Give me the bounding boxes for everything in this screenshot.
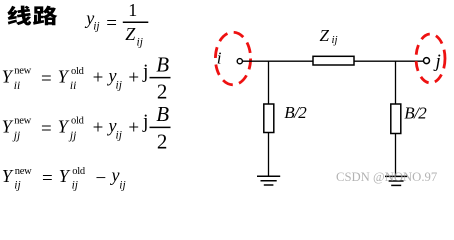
shunt capacitor box B/2 left xyxy=(264,104,274,133)
wire Zij box to j xyxy=(354,60,424,62)
svg-text:+: + xyxy=(93,68,104,89)
svg-text:+: + xyxy=(128,68,139,89)
svg-text:B: B xyxy=(156,102,169,126)
svg-text:new: new xyxy=(15,166,32,177)
svg-text:jj: jj xyxy=(68,130,76,142)
svg-text:old: old xyxy=(72,166,86,177)
svg-text:=: = xyxy=(42,168,53,189)
node terminal j xyxy=(424,58,430,64)
svg-text:ij: ij xyxy=(14,180,20,192)
svg-text:=: = xyxy=(41,69,52,90)
svg-text:+: + xyxy=(93,117,104,138)
svg-text:Z: Z xyxy=(125,24,136,44)
node ellipse j (red dashed) xyxy=(416,34,445,83)
svg-text:y: y xyxy=(110,165,120,185)
svg-text:ij: ij xyxy=(93,20,99,32)
node terminal i xyxy=(237,59,242,64)
title 线 (xian) xyxy=(7,6,31,26)
equation Yjj_new = Yjj_old + y_ij + jB/2 xyxy=(2,102,171,153)
svg-text:jj: jj xyxy=(12,130,20,142)
svg-text:1: 1 xyxy=(128,0,137,20)
svg-text:B/2: B/2 xyxy=(404,103,427,122)
svg-text:ij: ij xyxy=(116,129,122,141)
svg-text:2: 2 xyxy=(157,80,168,104)
node ellipse i (red dashed) xyxy=(215,32,250,85)
svg-text:ii: ii xyxy=(14,80,20,92)
svg-text:Z: Z xyxy=(320,26,330,45)
svg-text:ii: ii xyxy=(70,80,76,92)
equation Yii_new = Yii_old + y_ij + jB/2 xyxy=(2,52,171,103)
svg-text:new: new xyxy=(14,66,31,77)
wire right shunt branch bottom xyxy=(395,134,397,177)
svg-text:ij: ij xyxy=(116,80,122,92)
svg-text:B: B xyxy=(156,52,169,76)
svg-text:CSDN @NONO.97: CSDN @NONO.97 xyxy=(336,170,437,184)
svg-text:i: i xyxy=(217,48,222,67)
wire right shunt branch top xyxy=(395,61,397,105)
svg-text:old: old xyxy=(71,66,85,77)
svg-text:=: = xyxy=(106,13,117,34)
svg-text:ij: ij xyxy=(137,36,143,48)
svg-text:new: new xyxy=(14,115,31,126)
svg-text:j: j xyxy=(142,62,148,83)
wire left shunt branch bottom xyxy=(268,133,270,177)
svg-text:old: old xyxy=(71,116,85,127)
svg-text:j: j xyxy=(142,111,148,132)
svg-text:+: + xyxy=(128,117,139,138)
svg-text:−: − xyxy=(96,168,107,189)
wire i to Zij box xyxy=(243,60,314,62)
ground right xyxy=(385,176,407,185)
svg-text:ij: ij xyxy=(72,180,78,192)
svg-text:2: 2 xyxy=(157,129,168,153)
ground left xyxy=(257,176,280,185)
equation Yij_new = Yij_old - y_ij xyxy=(2,165,126,192)
svg-text:=: = xyxy=(41,118,52,139)
title 路 (lu) xyxy=(33,6,57,26)
svg-text:B/2: B/2 xyxy=(284,103,307,122)
shunt capacitor box B/2 right xyxy=(391,104,401,134)
svg-text:ij: ij xyxy=(332,34,338,46)
impedance Zij box xyxy=(313,56,354,65)
formula y_ij = 1/Z_ij xyxy=(84,0,148,48)
svg-text:ij: ij xyxy=(119,180,125,192)
wire left shunt branch top xyxy=(268,61,270,105)
